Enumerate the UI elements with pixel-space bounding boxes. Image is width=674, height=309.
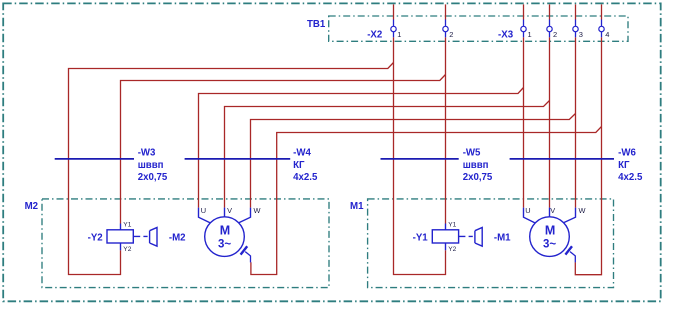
terminal -X2 pin 2 (443, 20, 454, 39)
svg-text:2: 2 (449, 30, 453, 39)
svg-text:2х0,75: 2х0,75 (463, 172, 493, 183)
svg-text:U: U (525, 206, 530, 215)
svg-text:M: M (545, 223, 555, 237)
wire -W4 core PE: branch from -X3:4 routed left to M2 motor frame (251, 127, 602, 275)
svg-text:-M1: -M1 (494, 233, 511, 244)
terminal -X3 pin 1 (521, 20, 532, 39)
valve horn -M1 (459, 228, 512, 247)
wire: supply drop to -X3:4 (601, 4, 603, 19)
valve horn -M2 (133, 228, 185, 247)
svg-text:U: U (201, 206, 206, 215)
svg-text:шввп: шввп (138, 160, 164, 171)
svg-text:шввп: шввп (463, 160, 489, 171)
svg-text:M2: M2 (25, 201, 38, 212)
svg-text:-W4: -W4 (293, 147, 311, 158)
cable marker -W4 (185, 147, 318, 183)
svg-text:1: 1 (528, 30, 532, 39)
svg-text:-W6: -W6 (618, 147, 636, 158)
svg-text:-Y1: -Y1 (413, 233, 429, 244)
solenoid coil -Y2 (88, 222, 134, 253)
wire: supply drop to -X2:2 (445, 4, 447, 19)
terminal block TB1 (307, 16, 628, 41)
wire -W6 core W: -X3:3 down to M1 motor W (575, 37, 577, 207)
wire -W6 core PE: -X3:4 down and around to M1 motor frame (575, 37, 601, 274)
wire: supply drop to -X3:1 (523, 4, 525, 19)
svg-text:-Y2: -Y2 (88, 233, 103, 244)
terminal -X3 pin 2 (547, 20, 557, 39)
wire -W4 core U: branch from -X3:1 routed left to M2 motor U (199, 88, 524, 208)
wire -W6 core V: -X3:2 down to M1 motor V (549, 37, 551, 207)
svg-text:4: 4 (605, 30, 609, 39)
svg-text:Y1: Y1 (123, 222, 131, 229)
cable marker -W3 (55, 147, 168, 183)
cable marker -W5 (381, 147, 493, 183)
svg-text:4х2.5: 4х2.5 (293, 172, 318, 183)
motor -M2 (M 3~) (199, 206, 261, 262)
svg-text:-M2: -M2 (169, 233, 186, 244)
svg-text:V: V (550, 206, 555, 215)
machine enclosure M2 (25, 199, 329, 288)
wire -W3 core 1: branch from -X2:1 routed left to -Y2 pin Y2 loop (69, 63, 394, 275)
wire -W4 core W: branch from -X3:3 routed left to M2 motor W (251, 114, 576, 208)
motor -M1 (M 3~) (524, 206, 586, 262)
solenoid coil -Y1 (413, 222, 459, 253)
svg-text:КГ: КГ (618, 160, 630, 171)
svg-text:-W5: -W5 (463, 147, 481, 158)
wire -W3 core 2: branch from -X2:2 routed left to -Y2 pin Y1 (121, 75, 446, 224)
svg-text:W: W (579, 206, 586, 215)
terminal -X3 pin 3 (573, 20, 583, 39)
svg-text:-X3: -X3 (498, 30, 514, 41)
svg-text:4х2.5: 4х2.5 (618, 172, 643, 183)
svg-text:M1: M1 (350, 201, 364, 212)
terminal -X3 pin 4 (599, 20, 610, 39)
wire: supply drop to -X3:3 (575, 4, 577, 19)
wire: supply drop to -X2:1 (393, 4, 395, 19)
svg-text:3~: 3~ (218, 239, 231, 251)
svg-text:Y2: Y2 (123, 246, 131, 253)
wire -W4 core V: branch from -X3:2 routed left to M2 motor V (225, 101, 550, 208)
svg-text:3: 3 (579, 30, 583, 39)
wire -W6 core U: -X3:1 down to M1 motor U (523, 37, 525, 207)
svg-text:V: V (227, 206, 232, 215)
svg-text:M: M (220, 223, 230, 237)
svg-text:2х0,75: 2х0,75 (138, 172, 168, 183)
svg-text:Y2: Y2 (448, 246, 456, 253)
cable marker -W6 (510, 147, 643, 183)
wire -W5 core 2: -X2:2 down to -Y1 pin Y1 (445, 37, 447, 223)
svg-text:-X2: -X2 (367, 30, 382, 41)
svg-text:2: 2 (553, 30, 557, 39)
wire -W5 core 1: -X2:1 down to -Y1 pin Y2 loop (394, 37, 446, 274)
svg-text:TB1: TB1 (307, 19, 326, 30)
machine enclosure M1 (350, 199, 614, 288)
svg-text:Y1: Y1 (448, 222, 456, 229)
wire: supply drop to -X3:2 (549, 4, 551, 19)
svg-text:-W3: -W3 (138, 147, 156, 158)
svg-text:1: 1 (397, 30, 401, 39)
svg-text:W: W (254, 206, 261, 215)
svg-text:КГ: КГ (293, 160, 305, 171)
terminal -X2 pin 1 (391, 20, 402, 39)
svg-text:3~: 3~ (543, 239, 556, 251)
